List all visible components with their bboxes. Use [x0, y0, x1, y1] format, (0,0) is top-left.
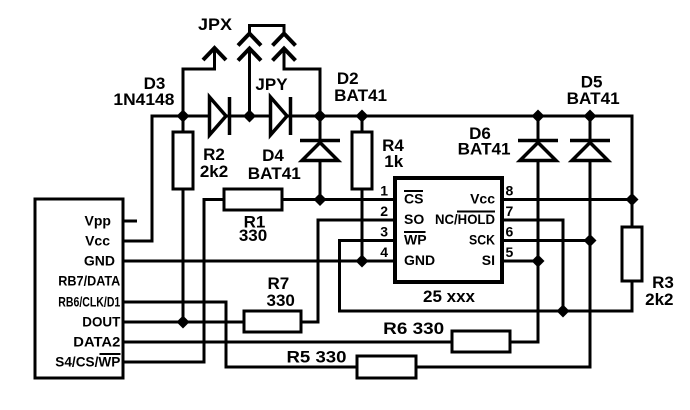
svg-text:25 xxx: 25 xxx — [423, 287, 476, 306]
wire: jumper right pin down through D4 to CS row — [284, 48, 320, 200]
diode D5 BAT41 (vertical, cathode up) — [570, 141, 610, 161]
node: bus/jumper3/D4 junction — [314, 110, 327, 123]
svg-text:3: 3 — [380, 224, 388, 240]
svg-text:SI: SI — [482, 252, 495, 268]
svg-text:6: 6 — [506, 224, 514, 240]
node: bus/D6 junction — [532, 110, 545, 123]
diode D4 BAT41 (vertical, cathode up) — [300, 141, 340, 161]
wire: jumper left pin down to R2 and DOUT junction — [183, 48, 215, 322]
svg-text:1k: 1k — [384, 152, 403, 171]
svg-text:GND: GND — [84, 253, 115, 269]
overline of CS — [404, 190, 423, 192]
svg-text:Vpp: Vpp — [85, 213, 111, 229]
jumper JPX cap bracket — [250, 26, 285, 35]
svg-text:Vcc: Vcc — [470, 191, 495, 207]
svg-text:JPY: JPY — [255, 75, 288, 94]
diode D2 BAT41 (horizontal, cathode right) — [271, 97, 291, 135]
wire: R6 right riser through SI up to bus (D6 branch) — [510, 116, 538, 342]
jumper pin chevron middle — [238, 49, 261, 61]
svg-text:DOUT: DOUT — [82, 314, 120, 330]
node: WP row / NC-HOLD junction — [557, 305, 570, 318]
diode D6 BAT41 (vertical, cathode up) — [518, 141, 558, 161]
diode D3 1N4148 (horizontal, cathode right) — [210, 97, 230, 135]
node: SI / D6 junction — [532, 255, 545, 268]
wire: GND row from connector to IC pin4 — [123, 260, 395, 263]
resistor R7 330 — [244, 311, 301, 332]
resistor R6 330 — [452, 331, 510, 352]
wire: IC pin8 Vcc stub — [502, 198, 632, 201]
node: GND row / R4 junction — [356, 255, 369, 268]
svg-text:R6 330: R6 330 — [383, 319, 444, 338]
svg-text:BAT41: BAT41 — [248, 164, 301, 183]
resistor R5 330 — [357, 356, 416, 378]
overline of WP in S4/CS/WP — [100, 353, 121, 355]
svg-text:1: 1 — [380, 183, 388, 199]
svg-text:S4/CS/WP: S4/CS/WP — [55, 354, 120, 370]
svg-text:RB7/DATA: RB7/DATA — [58, 273, 120, 289]
node: Vcc pin8 / R3 junction — [626, 193, 639, 206]
svg-text:SCK: SCK — [469, 232, 495, 248]
svg-text:WP: WP — [404, 232, 427, 248]
wire: S4/CS/WP row up to R1 left — [123, 200, 224, 363]
wire: IC pin6 SCK stub — [502, 239, 590, 242]
svg-text:BAT41: BAT41 — [567, 89, 620, 108]
connector J1 box — [35, 199, 123, 378]
node: CS row / D4 junction — [314, 193, 327, 206]
svg-text:2k2: 2k2 — [200, 162, 228, 181]
jumper cap chevron right — [273, 34, 296, 46]
wire: RB6/CLK/D1 to R5 left — [123, 302, 357, 367]
resistor R2 2k2 — [173, 132, 193, 189]
svg-text:2: 2 — [380, 203, 388, 219]
svg-text:DATA2: DATA2 — [73, 334, 120, 350]
svg-text:5: 5 — [506, 244, 514, 260]
svg-text:330: 330 — [239, 226, 267, 245]
wire: IC pin5 SI stub — [502, 260, 538, 263]
jumper cap chevron left — [238, 34, 261, 46]
overline of WP — [404, 231, 426, 233]
svg-text:8: 8 — [506, 183, 514, 199]
wire: IC pin7 NC/HOLD down to WP row — [502, 220, 563, 311]
node: bus/jumper2/D3-D2 junction — [243, 110, 256, 123]
wire: R1 right to IC pin1 CS — [282, 198, 395, 201]
svg-text:GND: GND — [404, 252, 435, 268]
jumper pin chevron left (JPX pin 1) — [203, 48, 226, 60]
wire: bus Vcc left riser and top bus to right riser down to R3 top — [123, 116, 632, 241]
wire: IC pin3 WP down and right to R3 bottom — [340, 241, 633, 312]
svg-text:4: 4 — [380, 244, 388, 260]
svg-text:D4: D4 — [262, 146, 284, 165]
jumper pin chevron right — [273, 49, 296, 61]
wire: R4 branch from bus to GND row — [361, 116, 364, 261]
svg-text:SO: SO — [404, 211, 424, 227]
svg-text:7: 7 — [506, 203, 514, 219]
IC U1 25xxx box — [395, 178, 502, 282]
wire: jumper middle pin down to bus — [248, 48, 251, 116]
overline of HOLD — [457, 211, 495, 213]
node: bus/D5 junction — [584, 110, 597, 123]
svg-text:NC/HOLD: NC/HOLD — [435, 211, 495, 227]
svg-text:BAT41: BAT41 — [458, 140, 511, 159]
svg-text:RB6/CLK/D1: RB6/CLK/D1 — [58, 294, 120, 310]
svg-text:R5 330: R5 330 — [287, 348, 347, 367]
svg-text:BAT41: BAT41 — [334, 86, 387, 105]
node: DOUT / R2 junction — [177, 316, 190, 329]
svg-text:2k2: 2k2 — [645, 290, 673, 309]
svg-text:Vcc: Vcc — [85, 233, 110, 249]
node: bus/R2/jumper1 junction — [177, 110, 190, 123]
svg-text:1N4148: 1N4148 — [113, 90, 174, 109]
wire: DOUT row to R7 left — [123, 321, 244, 324]
wire: R7 right up to IC pin2 SO — [301, 220, 395, 322]
svg-text:CS: CS — [404, 191, 423, 207]
resistor R3 2k2 — [622, 227, 642, 281]
resistor R1 330 — [224, 189, 282, 210]
resistor R4 1k — [352, 132, 372, 189]
wire: Vpp stub — [123, 220, 137, 223]
wire: DATA2 row to R6 left — [123, 341, 452, 344]
svg-text:330: 330 — [267, 291, 295, 310]
node: bus/R4 junction — [356, 110, 369, 123]
svg-text:JPX: JPX — [198, 15, 233, 34]
wire: R5 right to SCK junction riser — [416, 116, 590, 367]
node: SCK / D5 junction — [584, 234, 597, 247]
